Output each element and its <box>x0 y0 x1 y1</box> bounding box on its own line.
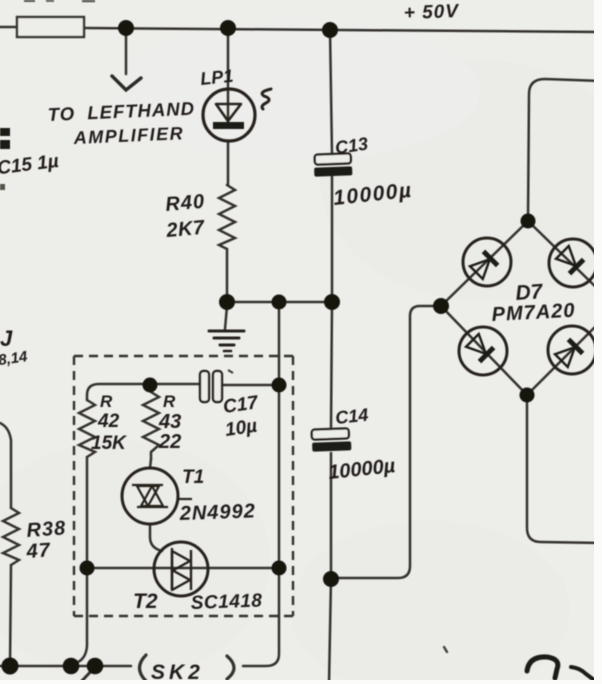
svg-text:C14: C14 <box>334 405 369 428</box>
svg-text:R40: R40 <box>165 191 206 216</box>
svg-text:PM7A20: PM7A20 <box>491 300 576 326</box>
svg-text:+ 50V: + 50V <box>403 1 459 24</box>
svg-text:42: 42 <box>97 411 120 432</box>
svg-text:2N4992: 2N4992 <box>178 500 256 525</box>
svg-text:T1: T1 <box>182 467 204 488</box>
svg-text:LP1: LP1 <box>199 66 234 89</box>
svg-text:10µ: 10µ <box>224 416 259 441</box>
svg-text:2K7: 2K7 <box>165 217 206 242</box>
svg-text:22: 22 <box>158 431 181 453</box>
svg-text:15K: 15K <box>91 433 127 454</box>
svg-text:43: 43 <box>158 411 181 433</box>
svg-text:J: J <box>0 326 13 351</box>
svg-text:R: R <box>100 392 113 411</box>
svg-text:R: R <box>163 392 176 411</box>
svg-text:T2: T2 <box>133 590 158 613</box>
svg-text:R38: R38 <box>26 517 67 542</box>
svg-text:47: 47 <box>25 539 52 563</box>
svg-text:SC1418: SC1418 <box>190 591 262 614</box>
